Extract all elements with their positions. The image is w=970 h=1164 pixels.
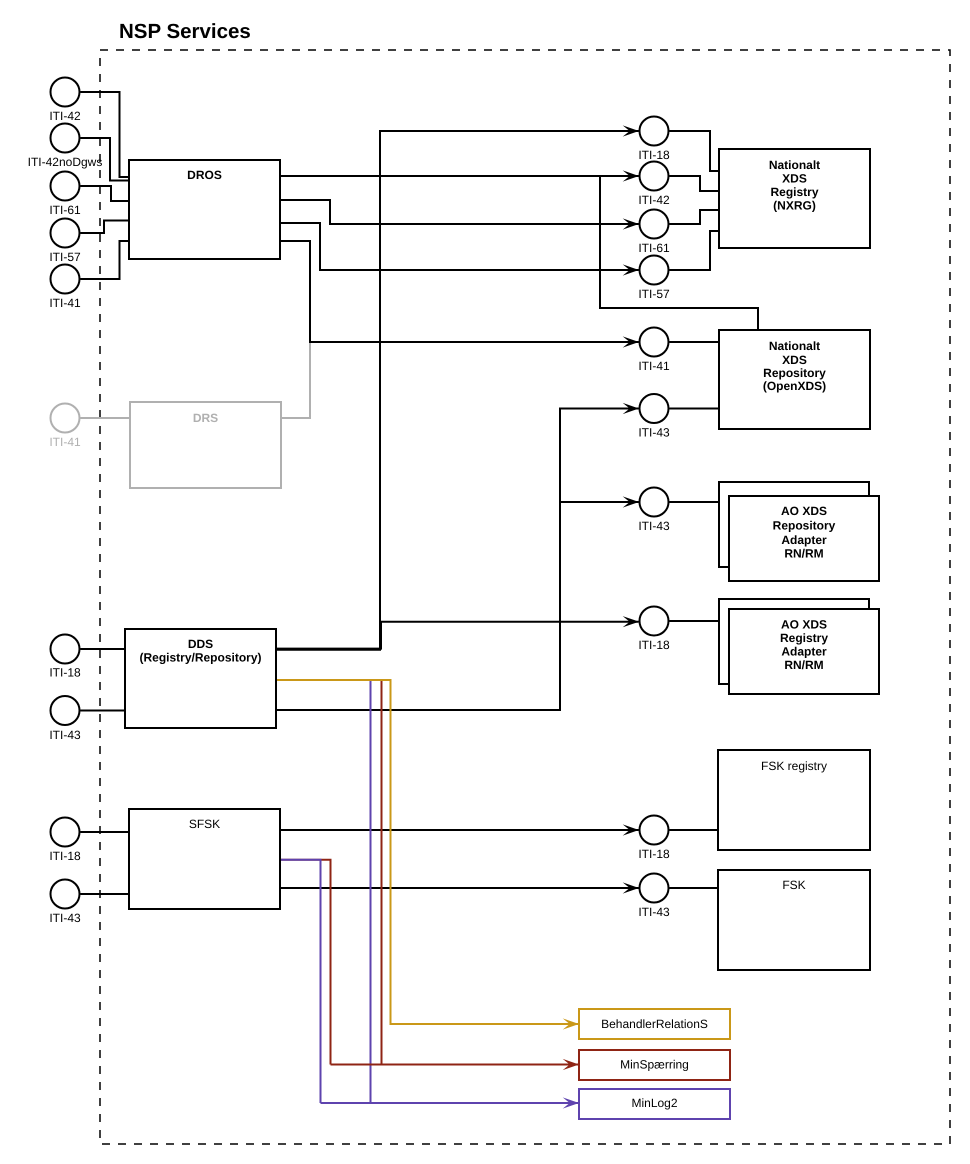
svg-text:ITI-41: ITI-41: [49, 296, 81, 310]
svg-text:(NXRG): (NXRG): [773, 199, 816, 213]
svg-text:Registry: Registry: [780, 631, 828, 645]
svg-text:ITI-42noDgws: ITI-42noDgws: [28, 155, 103, 169]
svg-text:ITI-61: ITI-61: [638, 241, 670, 255]
svg-text:SFSK: SFSK: [189, 817, 220, 831]
svg-text:Nationalt: Nationalt: [769, 158, 820, 172]
svg-text:ITI-61: ITI-61: [49, 203, 81, 217]
svg-text:MinSpærring: MinSpærring: [620, 1058, 689, 1072]
svg-text:ITI-42: ITI-42: [49, 109, 81, 123]
svg-text:RN/RM: RN/RM: [784, 547, 823, 561]
svg-text:DROS: DROS: [187, 168, 222, 182]
svg-text:ITI-43: ITI-43: [49, 911, 81, 925]
svg-text:ITI-43: ITI-43: [638, 519, 670, 533]
svg-text:AO XDS: AO XDS: [781, 618, 827, 632]
svg-text:ITI-18: ITI-18: [638, 847, 670, 861]
svg-text:ITI-57: ITI-57: [49, 250, 81, 264]
svg-text:ITI-18: ITI-18: [49, 666, 81, 680]
svg-text:(OpenXDS): (OpenXDS): [763, 379, 826, 393]
svg-text:DRS: DRS: [193, 411, 218, 425]
svg-text:ITI-57: ITI-57: [638, 287, 670, 301]
svg-text:NSP Services: NSP Services: [119, 20, 251, 43]
svg-text:ITI-18: ITI-18: [638, 638, 670, 652]
svg-text:ITI-43: ITI-43: [638, 426, 670, 440]
svg-text:ITI-18: ITI-18: [638, 148, 670, 162]
svg-text:ITI-42: ITI-42: [638, 193, 670, 207]
svg-text:(Registry/Repository): (Registry/Repository): [139, 651, 261, 665]
svg-text:ITI-41: ITI-41: [638, 359, 670, 373]
svg-text:MinLog2: MinLog2: [631, 1096, 677, 1110]
svg-text:FSK: FSK: [782, 878, 805, 892]
svg-text:XDS: XDS: [782, 172, 807, 186]
svg-text:RN/RM: RN/RM: [784, 658, 823, 672]
svg-text:ITI-41: ITI-41: [49, 435, 81, 449]
svg-text:ITI-43: ITI-43: [49, 728, 81, 742]
svg-text:Nationalt: Nationalt: [769, 339, 820, 353]
svg-text:BehandlerRelationS: BehandlerRelationS: [601, 1017, 708, 1031]
svg-text:Repository: Repository: [763, 366, 826, 380]
svg-text:ITI-43: ITI-43: [638, 905, 670, 919]
svg-text:Registry: Registry: [770, 185, 818, 199]
svg-text:ITI-18: ITI-18: [49, 849, 81, 863]
svg-text:FSK registry: FSK registry: [761, 759, 827, 773]
svg-text:Repository: Repository: [773, 519, 836, 533]
svg-text:XDS: XDS: [782, 353, 807, 367]
svg-text:DDS: DDS: [188, 637, 213, 651]
svg-text:Adapter: Adapter: [781, 644, 827, 658]
svg-text:Adapter: Adapter: [781, 533, 827, 547]
svg-text:AO XDS: AO XDS: [781, 504, 827, 518]
